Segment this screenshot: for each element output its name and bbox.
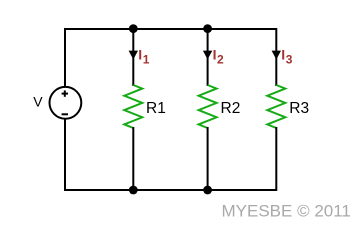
resistor R1 <box>124 85 142 128</box>
wire left branch top segment <box>64 28 66 88</box>
svg-text:MYESBE © 2011: MYESBE © 2011 <box>222 201 351 220</box>
resistor R2 <box>199 85 217 128</box>
svg-text:R1: R1 <box>146 100 166 117</box>
wire branch R1 top segment <box>132 28 134 86</box>
svg-text:I: I <box>138 46 142 62</box>
svg-text:2: 2 <box>217 52 224 66</box>
wire branch R3 top segment <box>275 28 277 86</box>
current arrow I3 <box>272 51 281 60</box>
current arrow I2 <box>203 51 212 60</box>
wire branch R3 bottom segment <box>275 127 277 191</box>
node bottom junction 1 <box>129 186 138 195</box>
svg-text:R3: R3 <box>289 100 309 117</box>
label I3 <box>281 46 292 66</box>
svg-text:3: 3 <box>286 52 293 66</box>
wire top bus <box>64 28 277 30</box>
wire bottom bus <box>64 189 277 191</box>
node top junction 1 <box>129 24 138 33</box>
node bottom junction 2 <box>203 186 212 195</box>
svg-text:R2: R2 <box>221 100 241 117</box>
svg-text:V: V <box>33 94 43 110</box>
voltage source V <box>50 87 82 119</box>
svg-text:I: I <box>213 46 217 62</box>
svg-text:1: 1 <box>143 52 150 66</box>
wire branch R2 top segment <box>207 28 209 86</box>
resistor R3 <box>267 85 285 128</box>
wire branch R1 bottom segment <box>132 127 134 191</box>
wire branch R2 bottom segment <box>207 127 209 191</box>
node top junction 2 <box>203 24 212 33</box>
wire left branch bottom segment <box>64 119 66 192</box>
svg-text:I: I <box>281 46 285 62</box>
label I1 <box>138 46 149 66</box>
current arrow I1 <box>129 51 138 60</box>
label I2 <box>213 46 224 66</box>
